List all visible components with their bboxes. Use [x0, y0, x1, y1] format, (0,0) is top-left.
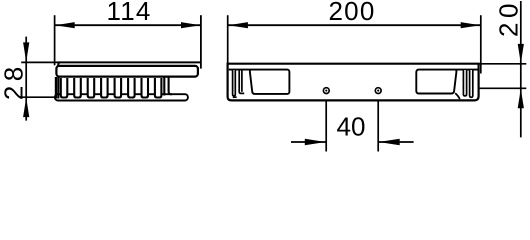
basket end elbow wire	[164, 77, 171, 96]
dimension 200 left extension line	[227, 15, 229, 64]
dimension 20 top arrow	[518, 44, 524, 64]
dimension 40 left extension line	[325, 93, 327, 151]
dimension 40 right extension line	[377, 93, 379, 151]
right screw hole	[375, 88, 381, 94]
dimension 200 right extension line	[480, 15, 482, 73]
rail front face	[56, 66, 198, 77]
dimension 200 line	[228, 24, 481, 26]
svg-text:114: 114	[106, 0, 151, 26]
basket slat U wires	[61, 78, 162, 98]
dimension 114 line	[55, 24, 202, 26]
dimension 20 bottom extension line	[464, 87, 526, 89]
dimension 40 right line segment	[379, 141, 414, 143]
dimension 200 right arrow	[461, 22, 481, 28]
top face back edge	[57, 61, 201, 63]
left screw hole	[323, 88, 329, 94]
dimension 20 bottom arrow	[518, 89, 524, 109]
left hook wire 1	[233, 70, 236, 96]
basket bottom wire bar	[55, 94, 188, 100]
right inset corner wire	[455, 93, 460, 99]
dimension 40 left line segment	[291, 141, 326, 143]
dimension 20 top extension line	[478, 63, 526, 65]
dimension 28 bottom extension line	[21, 96, 55, 98]
left hook wire 2	[239, 70, 244, 93]
dimension 20 line	[520, 1, 522, 137]
top face left connector	[57, 62, 59, 66]
dimension 28 bottom arrow	[23, 98, 29, 118]
dimension 40 left arrow	[305, 139, 326, 145]
right screw hole center	[377, 90, 379, 92]
dimension 114 right extension line	[200, 15, 202, 68]
rail inner fold line + left tray inset	[229, 70, 290, 94]
basket left frame wire	[56, 77, 58, 99]
svg-text:200: 200	[329, 0, 376, 26]
dimension 200 left arrow	[228, 22, 248, 28]
rail inner fold line + right tray inset	[416, 70, 478, 94]
dimension 114 right arrow	[181, 22, 201, 28]
dimension 28 line	[25, 37, 27, 121]
left screw hole center	[325, 90, 327, 92]
rail outer outline	[228, 64, 479, 101]
right hook wire 1	[470, 70, 473, 97]
dimension 40 right arrow	[379, 139, 400, 145]
right hook wire 2	[463, 70, 466, 96]
left hook wire 2 inner edge	[241, 70, 243, 92]
svg-text:28: 28	[0, 62, 28, 100]
dimension 28 top extension line	[21, 61, 58, 63]
dimension 114 left extension line	[54, 15, 56, 65]
right view: basket front	[228, 64, 479, 101]
dimension 114 left arrow	[55, 22, 74, 28]
left view: basket side	[55, 62, 201, 100]
svg-text:20: 20	[493, 0, 523, 37]
left hook wire foot	[233, 96, 237, 98]
dimension 28 top arrow	[23, 42, 29, 62]
svg-text:40: 40	[337, 112, 366, 142]
